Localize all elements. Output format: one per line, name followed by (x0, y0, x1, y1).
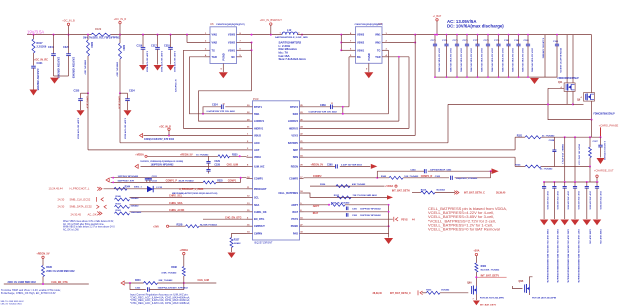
junction cap C181 bot (508, 76, 510, 78)
ground cap bank (530, 78, 539, 84)
junction cap C176 bot (466, 76, 468, 78)
power flag +3VA (473, 250, 479, 263)
junction VSW2 (251, 42, 253, 44)
svg-text:51_7%/0402: 51_7%/0402 (542, 134, 555, 137)
svg-text:10UF 25V X5R 0805: 10UF 25V X5R 0805 (546, 191, 548, 210)
wire BTST2 row (304, 106, 350, 108)
junction cap C178 top (487, 34, 489, 36)
power flag +VDDA vdda (135, 153, 147, 157)
svg-text:TGR: TGR (212, 56, 217, 59)
resistor R319 (84, 35, 93, 94)
svg-text:+DC_IN_R: +DC_IN_R (114, 17, 127, 21)
wire VSYS row (304, 135, 416, 137)
wire det row (422, 292, 468, 294)
svg-text:280K/1%_1BV: 280K/1%_1BV (116, 62, 118, 77)
svg-text:20K_7%/0402: 20K_7%/0402 (159, 279, 174, 282)
svg-text:374K_7%/0402: 374K_7%/0402 (161, 272, 177, 275)
svg-text:ACN: ACN (254, 142, 260, 145)
svg-text:C364: C364 (410, 168, 416, 171)
net label CHG_ILIM (227, 164, 238, 167)
wire VSW3 phase (242, 34, 282, 36)
svg-text:C179: C179 (494, 40, 500, 42)
net label 19V/3.5A (27, 30, 44, 35)
svg-text:C327: C327 (593, 141, 599, 143)
wire outrow drop b (575, 137, 580, 182)
off-page ILIM (135, 164, 138, 168)
comment DC rating (447, 24, 504, 29)
svg-text:+REGN_5V: +REGN_5V (36, 253, 49, 256)
resistor R360 (475, 263, 500, 284)
off-page PSYS (394, 217, 398, 222)
junction out 5 (596, 181, 598, 183)
svg-text:2 C33: 2 C33 (156, 187, 163, 189)
comment C335 value (77, 118, 80, 140)
capacitor C365 (435, 176, 478, 180)
svg-text:1UF/25V_X5R/0603(LF)/SMD(A-03-: 1UF/25V_X5R/0603(LF)/SMD(A-03-1/0328) (140, 160, 183, 163)
junction bus x88 (87, 34, 89, 36)
svg-text:ADPT: ADPT (291, 204, 298, 207)
svg-text:C174: C174 (442, 39, 448, 42)
wire c364 join (490, 171, 492, 178)
svg-text:DC: 10V/6A(max discharge): DC: 10V/6A(max discharge) (447, 24, 504, 29)
svg-text:R32B: R32B (177, 224, 183, 226)
junction gnd riser a (388, 204, 390, 206)
ground Q6A (473, 301, 480, 306)
comment out cap text 3 (577, 229, 580, 284)
svg-text:AC_OK is HIGH after 50ms degli: AC_OK is HIGH after 50ms deglitch time. (63, 223, 105, 226)
svg-text:COMP1: COMP1 (254, 178, 264, 181)
svg-text:C329: C329 (214, 161, 220, 163)
svg-text:LODRV2: LODRV2 (288, 120, 299, 123)
capacitor C335 (ACP filter) (74, 90, 89, 111)
net label +DC_IN_RC (34, 59, 48, 62)
net label H_PROCHOT_L (49, 187, 90, 191)
wire U6 TG to PU3 HIDRV1 (184, 50, 247, 128)
svg-text:C389 10UF 25V: C389 10UF 25V (599, 229, 601, 245)
svg-text:R335: R335 (232, 155, 238, 157)
capacitor C178 (484, 35, 493, 78)
svg-text:C335: C335 (74, 90, 80, 93)
comment OTG note (1, 288, 61, 295)
svg-text:10UF 25V X5R 0805: 10UF 25V X5R 0805 (577, 191, 579, 210)
comment L12 spec (279, 40, 307, 61)
junction U7 VSW2 (340, 42, 342, 44)
svg-text:TG: TG (377, 49, 381, 52)
wire ILIM row (141, 165, 247, 167)
svg-text:10UF 25V X5R 20% 0805: 10UF 25V X5R 20% 0805 (449, 48, 451, 73)
capacitor C183 (524, 35, 533, 78)
svg-text:+REGN_5V: +REGN_5V (311, 164, 324, 167)
comment ILIM note (130, 292, 190, 305)
wire U7 TGR row (389, 56, 410, 58)
svg-text:COMP2: COMP2 (289, 178, 299, 181)
wire phase to U7 (298, 34, 350, 36)
net label PSYS (401, 218, 415, 221)
capacitor C385 (552, 182, 558, 219)
svg-text:While VBUS is falls below 3.2: While VBUS is falls below 3.2 V or rises… (63, 226, 115, 229)
svg-text:CHRG_SDA: CHRG_SDA (169, 202, 183, 205)
net label CHG_EN_OTG b (51, 281, 68, 284)
net label ADPT (313, 205, 320, 208)
wire gnd riser (388, 205, 390, 238)
svg-text:+DC_IN_B: +DC_IN_B (62, 19, 75, 23)
capacitor C332 (148, 178, 158, 183)
svg-text:+3VA: +3VA (473, 250, 479, 253)
junction sw2 (342, 113, 344, 115)
off-page cell (387, 195, 393, 199)
svg-text:C181: C181 (504, 40, 510, 42)
wire SDA row (130, 204, 247, 206)
svg-text:C326(0.01UF/25V_X7R 0402: C326(0.01UF/25V_X7R 0402 (144, 138, 175, 141)
wire VBUS row (144, 135, 247, 137)
ground C316 (139, 65, 147, 71)
power flag +VDDA b (180, 249, 189, 267)
comment comp1 caps l1 (118, 175, 139, 178)
svg-text:PSYS: PSYS (291, 218, 298, 221)
junction comp1 b (240, 177, 242, 179)
svg-text:10UF 25V X5R 20% 0805: 10UF 25V X5R 20% 0805 (459, 48, 461, 73)
svg-text:IBAT: IBAT (313, 212, 319, 215)
comment C328 value (151, 164, 221, 167)
net label CHRG_ACOK (169, 209, 185, 212)
svg-text:DNI/NLF_VL0L4TN_5: DNI/NLF_VL0L4TN_5 (561, 144, 564, 165)
svg-text:200K 1% 1/16W SMD 0402: 200K 1% 1/16W SMD 0402 (8, 281, 37, 284)
svg-text:BTST2: BTST2 (290, 106, 299, 109)
wire cap bank bottom bus (435, 76, 557, 78)
wire BTST2 to SW2 (342, 107, 344, 114)
svg-text:380pF/50V_X7R0402: 380pF/50V_X7R0402 (456, 177, 478, 180)
diode D36 (147, 186, 153, 192)
svg-text:10_7%/0402: 10_7%/0402 (196, 154, 209, 157)
wire U7 PGND (366, 63, 369, 72)
capacitor C334 (ACN filter) (120, 90, 135, 111)
wire VDDA row (147, 155, 247, 157)
svg-text:U6: U6 (210, 22, 214, 26)
svg-text:1K/0402: 1K/0402 (441, 289, 450, 292)
svg-text:VSW3: VSW3 (228, 34, 236, 37)
svg-text:C386 10UF 25V X5R 20% 0805 GRM: C386 10UF 25V X5R 20% 0805 GRM21BR61E106… (567, 229, 570, 284)
comment C334 value (124, 118, 127, 140)
comment AC_OK note (63, 220, 115, 232)
junction btst2 (342, 106, 344, 108)
junction cap C179 top (498, 34, 500, 36)
svg-text:FUT13K (SOT-363-6PIN: FUT13K (SOT-363-6PIN (532, 297, 556, 299)
resistor R325 (203, 181, 223, 184)
svg-text:ACP: ACP (254, 149, 260, 152)
svg-text:VIN1: VIN1 (375, 34, 381, 37)
capacitor C175 (453, 35, 462, 78)
svg-text:C365: C365 (435, 176, 441, 178)
svg-text:10PF/50V NPO/0402: 10PF/50V NPO/0402 (118, 175, 139, 178)
capacitor C321 (31, 62, 43, 91)
svg-text:BTST1: BTST1 (254, 106, 263, 109)
wire U6 VSW join (199, 43, 252, 122)
junction cap C177 bot (477, 76, 479, 78)
net label COMP1_P (166, 180, 178, 183)
op-amp PU3 battery charger BQ25713 (247, 97, 304, 245)
junction out 0 (543, 181, 545, 183)
inductor L12 part ref (275, 36, 308, 39)
off-page prochot (97, 187, 102, 191)
off-page VBUS (140, 134, 143, 138)
svg-text:*CHG_REG_ACC_ILIM=1.0A; ICHG_M: *CHG_REG_ACC_ILIM=1.0A; ICHG_MAX=1008mA; (130, 301, 190, 305)
svg-text:R326: R326 (320, 184, 326, 186)
svg-text:C382: C382 (352, 215, 358, 217)
wire U6 TGR to PU3 SW1 (190, 57, 247, 114)
junction cap C182 bot (518, 76, 520, 78)
svg-text:0.047UF/25V X7R 10% 0402: 0.047UF/25V X7R 10% 0402 (207, 110, 236, 113)
wire CELL row (304, 193, 388, 197)
svg-text:INT_BAT_DETH: INT_BAT_DETH (392, 190, 410, 193)
svg-text:33/0402: 33/0402 (131, 205, 140, 208)
net label SMB_DATA (58, 205, 93, 209)
capacitor C369 (309, 103, 338, 113)
junction bus x53.5 (53, 34, 55, 36)
wire C364 row (377, 171, 490, 178)
svg-text:TGR: TGR (375, 56, 380, 59)
svg-text:H_PROCHOT_L: H_PROCHOT_L (70, 187, 90, 191)
svg-text:1000FF(2.2nF)/50V_X7R/0402: 1000FF(2.2nF)/50V_X7R/0402 (158, 287, 189, 290)
svg-text:SDA: SDA (254, 204, 259, 207)
net label CHRG_SDA (169, 202, 183, 205)
svg-text:NC: NC (231, 56, 235, 59)
comment AC rating (447, 19, 477, 24)
wire EN_OTG row (203, 218, 247, 220)
svg-text:R329: R329 (95, 27, 102, 31)
junction cap C176 top (466, 34, 468, 36)
svg-text:10UF 25V X5R 20% 0805: 10UF 25V X5R 20% 0805 (469, 48, 471, 73)
svg-text:R317: R317 (37, 42, 44, 45)
wire U7 VIN1 bus (389, 34, 592, 36)
svg-text:10UF 25V X5R 20% 0805: 10UF 25V X5R 20% 0805 (480, 48, 482, 73)
ground C334 (124, 110, 132, 116)
junction ilim b (183, 282, 185, 284)
wire ILIM bottom row (125, 282, 216, 284)
comment out cap text 5 (599, 229, 601, 245)
svg-text:SW2: SW2 (293, 113, 299, 116)
net label +CHARGE_OUT (594, 168, 614, 182)
svg-text:10UF 25V X5R 20% 0805: 10UF 25V X5R 20% 0805 (490, 48, 492, 73)
junction cap C173 bot (434, 76, 436, 78)
svg-text:R337: R337 (334, 195, 340, 197)
junction out 1 (553, 181, 555, 183)
capacitor C328 (206, 166, 210, 173)
junction comp1 a (112, 177, 114, 184)
svg-text:SART02HMT2R2-R_2.2UF_GRD: SART02HMT2R2-R_2.2UF_GRD (275, 36, 308, 39)
capacitor C174 (442, 35, 451, 78)
ground U7 PGND (364, 72, 373, 78)
svg-text:38,39,40: 38,39,40 (496, 192, 506, 195)
svg-text:VIN2: VIN2 (375, 42, 381, 45)
junction cap C175 top (456, 34, 458, 36)
net label CHG_ILIM b (198, 279, 209, 282)
svg-text:VSW3: VSW3 (357, 34, 365, 37)
comment D36 part (172, 192, 218, 195)
svg-text:C388 10UF 25V: C388 10UF 25V (589, 229, 591, 245)
junction cap C183 top (527, 34, 529, 36)
wire COMP1 row2 (111, 181, 241, 183)
junction SW1 boot (202, 113, 204, 115)
svg-text:10,24,45,44: 10,24,45,44 (49, 187, 64, 191)
junction pgnd (388, 225, 390, 227)
wire Q9 source (591, 101, 593, 120)
svg-text:R330: R330 (46, 266, 52, 269)
transistor Q9 (577, 93, 615, 116)
resistor R342 (381, 175, 419, 179)
wire PGND row (304, 225, 389, 227)
comment CELL_BATPRESS (428, 206, 507, 232)
svg-text:S88-7%-1308 SMD 0402: S88-7%-1308 SMD 0402 (1, 301, 25, 303)
net label TG vert (176, 79, 178, 92)
svg-text:CELL_BATPRES: CELL_BATPRES (278, 192, 298, 195)
svg-text:R324: R324 (421, 188, 427, 191)
wire Q11 drain feed b (572, 35, 574, 83)
junction bus x33.5 (33, 34, 35, 36)
svg-text:VSW2: VSW2 (228, 42, 236, 45)
junction bus +I_BAT (436, 34, 438, 36)
svg-text:PROCHOT: PROCHOT (254, 188, 267, 191)
junction Q9 phase (591, 119, 593, 121)
wire COMP1 join (240, 178, 242, 183)
svg-text:CHRG_ACOK: CHRG_ACOK (169, 209, 185, 212)
junction q11 src row (572, 103, 574, 105)
capacitor C386 (563, 182, 569, 219)
svg-text:R344: R344 (125, 185, 131, 188)
svg-text:NL/100K_7%/0402: NL/100K_7%/0402 (481, 268, 500, 271)
wire U7 VSW2 stub (341, 42, 349, 44)
comment R325 value (179, 180, 195, 183)
svg-text:C334: C334 (129, 90, 135, 93)
svg-text:CSD87330Q3D(DQFN)(PU7): CSD87330Q3D(DQFN)(PU7) (355, 24, 384, 26)
junction C161 top (556, 34, 558, 36)
wire IBAT row (304, 211, 389, 213)
svg-text:+VDDA: +VDDA (180, 249, 189, 252)
svg-text:PGND: PGND (223, 53, 226, 60)
junction VIN2 r (414, 42, 416, 44)
net label bat detv2 (480, 304, 497, 306)
net label H_PROCHOT_L_C32B (179, 189, 204, 191)
transistor Q6A (467, 281, 476, 296)
comment r3xx val (8, 281, 37, 284)
comment out cap text 1 (556, 229, 559, 284)
wire SRN row (304, 156, 516, 158)
junction cap C174 bot (446, 76, 448, 78)
junction L12 out (301, 34, 303, 36)
svg-text:10UF 25V X5R 20% 0805: 10UF 25V X5R 20% 0805 (501, 48, 503, 73)
net label +REGN_5V regn (311, 164, 324, 167)
svg-text:0.1UF 16V X7R 0402: 0.1UF 16V X7R 0402 (173, 51, 176, 73)
svg-text:19V/3.5A: 19V/3.5A (27, 30, 44, 35)
svg-text:BG: BG (357, 56, 361, 59)
net label +3VA cmpout (153, 225, 159, 228)
svg-text:EN_OTG: EN_OTG (254, 218, 264, 221)
junction cap C182 top (518, 34, 520, 36)
svg-text:PSYS: PSYS (401, 218, 408, 221)
power flag +DC_IN_R vbus (159, 126, 171, 136)
junction gate drive (547, 103, 549, 105)
svg-text:40.2K 7%/0402: 40.2K 7%/0402 (179, 180, 195, 183)
wire Q9 drain feed (591, 35, 593, 93)
net label SMB_CLK (58, 197, 91, 201)
svg-text:HIDRV1: HIDRV1 (254, 127, 264, 130)
svg-text:HIDRV2: HIDRV2 (289, 127, 299, 130)
wire out bus (544, 181, 598, 183)
resistor R324b (421, 188, 446, 194)
svg-text:280K/1%_1BV: 280K/1%_1BV (84, 60, 86, 75)
off-page SDA (96, 205, 106, 209)
svg-text:24,30: 24,30 (58, 197, 65, 201)
svg-text:+DC_IN_RC: +DC_IN_RC (34, 59, 48, 62)
svg-text:+VDDA: +VDDA (135, 153, 144, 156)
junction cap C181 top (508, 34, 510, 36)
svg-text:CMPIN: CMPIN (254, 233, 262, 236)
svg-text:+CHRG_PHASE: +CHRG_PHASE (599, 123, 619, 127)
off-page detc (418, 290, 423, 295)
ground PU3 filter (384, 238, 393, 244)
off-page ACOK (97, 212, 102, 216)
svg-text:C369: C369 (320, 104, 326, 107)
junction cap C179 bot (498, 76, 500, 78)
svg-text:VSW1: VSW1 (228, 49, 236, 52)
net label CHRG_SCL (169, 195, 183, 198)
svg-text:COMP1_P: COMP1_P (166, 180, 178, 183)
power flag +I_BAT (433, 14, 442, 35)
wire Q11 drain feed a (566, 35, 568, 83)
junction bus x143 (142, 34, 144, 36)
svg-text:R325: R325 (217, 181, 223, 183)
capacitor C177 (473, 35, 482, 78)
ground out 0 (540, 220, 549, 226)
junction ACN tap (119, 92, 121, 94)
junction ACP tap (87, 92, 89, 94)
svg-text:+REGN_5V: +REGN_5V (180, 154, 193, 157)
wire PAD row (304, 233, 389, 235)
capacitor C319 (48, 35, 59, 79)
wire ADPT row (304, 204, 389, 206)
svg-text:VIN2: VIN2 (212, 42, 218, 45)
wire Q9 gate (573, 103, 584, 105)
capacitor C317 (151, 35, 163, 73)
svg-text:PU3: PU3 (253, 97, 259, 101)
resistor R336 (331, 201, 350, 206)
wire COMP2 row (304, 177, 491, 179)
wire EN_OTG bottom row (4, 283, 89, 285)
svg-text:SW1: SW1 (254, 113, 260, 116)
power +VDDA r (385, 185, 397, 188)
wire CMPIN row (232, 234, 247, 238)
svg-text:43K 7%/0402: 43K 7%/0402 (352, 183, 366, 186)
junction cap C173 top (434, 34, 436, 36)
svg-text:100K/0402: 100K/0402 (131, 211, 142, 214)
svg-text:Size:7.3x6.8x2.4mm: Size:7.3x6.8x2.4mm (279, 57, 307, 61)
svg-text:0.047UF/25V X7R 10% 0402: 0.047UF/25V X7R 10% 0402 (309, 110, 338, 113)
junction gnd riser b (388, 211, 390, 213)
svg-text:SRN: SRN (293, 156, 298, 159)
comment C326 value (144, 138, 175, 141)
svg-text:0/0402: 0/0402 (234, 242, 241, 245)
svg-text:Q6A: Q6A (467, 281, 472, 284)
svg-text:560PF/50V_X7R: 560PF/50V_X7R (118, 181, 135, 183)
wire Q11 source (567, 91, 573, 104)
resistor R324c (515, 163, 553, 170)
resistor R346 (115, 195, 140, 201)
svg-text:REGN: REGN (291, 165, 298, 168)
svg-text:C363: C363 (135, 288, 141, 290)
ground U6 PGND (219, 72, 228, 78)
wire U7 BG to BTST2 (348, 57, 350, 107)
comment out cap text 0 (546, 229, 549, 284)
wire outrow drop a (561, 137, 565, 182)
